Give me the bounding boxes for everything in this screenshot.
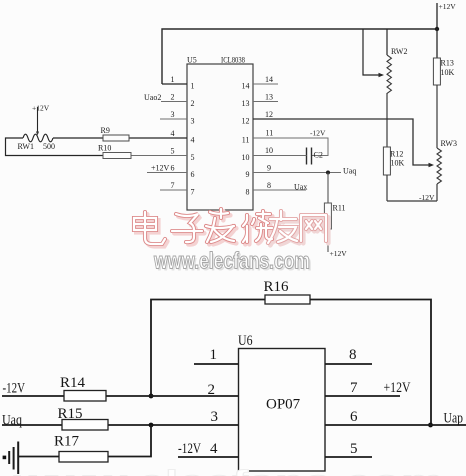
resistor R15 <box>62 420 108 431</box>
node junction R16/pin2 <box>149 394 154 399</box>
svg-text:13: 13 <box>265 93 273 102</box>
svg-text:Uap: Uap <box>444 411 464 427</box>
capacitor C2 <box>306 148 308 165</box>
node RW3 wiper arrow <box>429 163 435 167</box>
resistor R17 <box>59 452 108 463</box>
wire pin6 stub +12V <box>147 172 187 174</box>
IC U6 OP07 body <box>239 349 326 472</box>
wire pin4 line from R9 <box>129 137 187 139</box>
wire ground to R17 <box>18 456 59 458</box>
wire pin11 to -12V via C2 <box>253 138 328 156</box>
svg-text:1: 1 <box>191 82 195 91</box>
wire top rail from pin1 loop to +12V junction <box>162 29 437 84</box>
wire R12 bottom <box>386 175 388 201</box>
wire pin14 stub <box>253 83 278 85</box>
svg-text:+12V: +12V <box>151 164 170 173</box>
svg-text:C2: C2 <box>314 151 323 160</box>
wire RW3 bottom to -12V rail <box>436 184 438 201</box>
svg-text:2: 2 <box>208 382 216 398</box>
svg-text:13: 13 <box>242 99 250 108</box>
svg-text:-12V: -12V <box>310 129 326 138</box>
svg-text:11: 11 <box>266 129 274 138</box>
wire pin10 to C2 <box>253 155 307 157</box>
wire RW1 wiper to +12V <box>37 107 39 132</box>
svg-text:14: 14 <box>265 75 273 84</box>
svg-text:5: 5 <box>191 153 195 162</box>
wire +12V rail down to R13 <box>436 29 438 58</box>
svg-text:ICL8038: ICL8038 <box>221 56 245 65</box>
wire pin13 stub <box>253 101 278 103</box>
wire R16 right to output <box>310 300 431 426</box>
svg-text:-12V: -12V <box>419 193 435 202</box>
svg-text:R10: R10 <box>98 144 111 153</box>
wire pin7 stub <box>160 189 187 191</box>
wire R11 top lead <box>327 173 329 204</box>
svg-text:6: 6 <box>171 164 175 173</box>
svg-text:RW2: RW2 <box>391 47 407 56</box>
svg-text:R17: R17 <box>54 434 80 450</box>
wire pin1 stub <box>162 83 187 85</box>
wire RW1 right to R9 <box>53 137 103 139</box>
svg-text:R14: R14 <box>60 375 86 391</box>
resistor R13 <box>433 58 440 85</box>
ground <box>17 442 19 475</box>
wire pin8 stub Uax <box>253 189 306 191</box>
wire pin9 Uaq <box>253 172 341 174</box>
svg-text:3: 3 <box>191 117 195 126</box>
wire pin7 stub +12V <box>325 395 400 397</box>
wire R17 branch <box>108 425 151 457</box>
svg-text:4: 4 <box>171 129 175 138</box>
svg-text:9: 9 <box>267 164 271 173</box>
svg-text:12: 12 <box>242 117 250 126</box>
wire pin3 stub <box>160 118 187 120</box>
watermark url www.elecfans.com <box>153 248 312 276</box>
node RW2 wiper arrow <box>379 73 385 77</box>
wire pin5 line from R10 <box>131 155 187 157</box>
wire pin2 line from -12V via R14 <box>2 395 239 397</box>
svg-text:R16: R16 <box>264 279 290 295</box>
wire pin12 to RW3 wiper <box>253 119 430 165</box>
svg-text:+12V: +12V <box>32 104 50 113</box>
wire RW2 top to +12V rail <box>386 29 388 55</box>
svg-text:6: 6 <box>350 409 358 425</box>
wire R13 to RW3 <box>436 85 438 148</box>
svg-text:R9: R9 <box>101 126 110 135</box>
bottom op-amp circuit <box>2 295 466 474</box>
svg-text:2: 2 <box>171 93 175 102</box>
resistor R11 <box>324 203 331 229</box>
svg-text:6: 6 <box>191 170 195 179</box>
resistor R16 <box>265 295 310 304</box>
svg-text:2: 2 <box>191 99 195 108</box>
svg-text:www.elecfans.com: www.elecfans.com <box>153 248 310 274</box>
svg-text:RW1: RW1 <box>18 142 34 151</box>
svg-text:-12V: -12V <box>178 441 201 457</box>
wire R16 feedback top <box>151 300 265 397</box>
svg-text:Uaq: Uaq <box>343 167 356 176</box>
svg-text:Uaq: Uaq <box>2 413 22 429</box>
resistor R12 <box>383 147 390 175</box>
power +12V top right <box>436 3 438 29</box>
svg-text:R13: R13 <box>441 59 454 68</box>
wire pin5 stub <box>325 456 372 458</box>
wire pin3 line from Uaq via R15 <box>2 424 239 426</box>
svg-text:R12: R12 <box>390 150 403 159</box>
svg-text:U6: U6 <box>238 333 253 349</box>
wire pin6 output Uap <box>325 424 466 426</box>
svg-text:8: 8 <box>267 181 271 190</box>
wire R11 bottom lead to +12V <box>327 229 329 252</box>
wire pin8 stub <box>325 363 372 365</box>
svg-text:R15: R15 <box>58 406 83 422</box>
svg-text:www.elecfans.com: www.elecfans.com <box>12 465 444 476</box>
svg-text:10K: 10K <box>441 68 455 77</box>
svg-text:3: 3 <box>211 409 219 425</box>
svg-text:8: 8 <box>349 347 357 363</box>
svg-text:7: 7 <box>350 380 358 396</box>
potentiometer RW2 <box>387 55 391 93</box>
text labels top circuit <box>18 2 457 258</box>
resistor R9 <box>103 135 129 141</box>
svg-text:8: 8 <box>246 188 250 197</box>
svg-text:10K: 10K <box>391 159 405 168</box>
svg-text:+12V: +12V <box>439 2 457 11</box>
IC U5 ICL8038 body <box>187 64 253 210</box>
svg-text:7: 7 <box>191 188 195 197</box>
svg-text:Uax: Uax <box>294 183 307 192</box>
svg-text:500: 500 <box>43 142 55 151</box>
wire -12V bottom rail <box>387 200 437 202</box>
wire pin1 stub <box>194 363 239 365</box>
svg-text:12: 12 <box>265 110 273 119</box>
svg-text:R11: R11 <box>333 204 346 213</box>
node junction R17/pin3 <box>149 423 154 428</box>
svg-text:10: 10 <box>242 153 250 162</box>
svg-text:OP07: OP07 <box>266 397 301 413</box>
wire RW1 left loop to R10 <box>6 138 104 156</box>
svg-text:3: 3 <box>171 110 175 119</box>
svg-text:14: 14 <box>242 82 250 91</box>
resistor R14 <box>64 391 106 402</box>
potentiometer RW3 <box>437 148 441 184</box>
wire pin4 stub -12V <box>178 456 239 458</box>
svg-text:11: 11 <box>242 136 250 145</box>
potentiometer RW1 body <box>23 134 53 142</box>
svg-text:10: 10 <box>265 146 273 155</box>
node junction output/pin6 <box>428 423 433 428</box>
text labels bottom circuit <box>2 279 463 457</box>
svg-text:7: 7 <box>171 181 175 190</box>
svg-text:+12V: +12V <box>330 249 348 258</box>
svg-text:Uao2: Uao2 <box>144 93 161 102</box>
svg-text:1: 1 <box>171 75 175 84</box>
svg-text:4: 4 <box>210 441 218 457</box>
wire RW2 bottom to R12 <box>386 93 388 147</box>
svg-text:1: 1 <box>210 347 218 363</box>
node junction pin9/R11 <box>326 171 330 175</box>
svg-text:4: 4 <box>191 136 195 145</box>
svg-text:RW3: RW3 <box>441 139 457 148</box>
resistor R10 <box>103 153 131 159</box>
node RW1 wiper arrow <box>36 132 39 136</box>
node junction +12V rail <box>435 27 439 31</box>
svg-text:5: 5 <box>171 147 175 156</box>
svg-text:+12V: +12V <box>384 380 411 396</box>
wire pin2 stub Uao2 <box>161 101 187 103</box>
svg-text:U5: U5 <box>187 56 197 65</box>
svg-text:-12V: -12V <box>3 381 26 397</box>
svg-text:9: 9 <box>246 170 250 179</box>
wire branch to RW2 wiper <box>363 29 380 75</box>
svg-text:5: 5 <box>350 441 358 457</box>
